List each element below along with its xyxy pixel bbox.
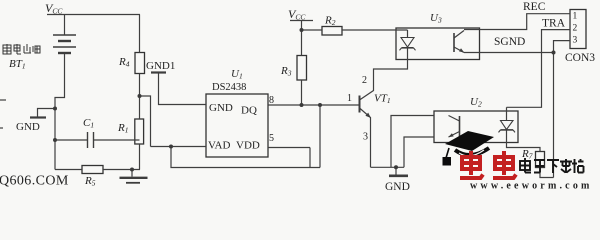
svg-text:2: 2: [362, 75, 367, 86]
svg-text:TRA: TRA: [542, 18, 566, 30]
svg-text:Q606.COM: Q606.COM: [0, 174, 69, 189]
svg-text:3: 3: [573, 36, 578, 46]
svg-text:1: 1: [347, 93, 352, 104]
svg-text:GND: GND: [209, 102, 233, 114]
svg-text:VAD: VAD: [208, 140, 230, 152]
svg-text:GND1: GND1: [146, 60, 175, 72]
svg-text:REC: REC: [523, 1, 546, 13]
svg-text:8: 8: [269, 95, 274, 106]
svg-text:DS2438: DS2438: [212, 82, 246, 93]
svg-text:3: 3: [363, 132, 368, 143]
svg-text:GND: GND: [385, 181, 410, 191]
svg-text:1: 1: [573, 12, 578, 22]
svg-text:CON3: CON3: [565, 52, 595, 64]
svg-text:www.eeworm.com: www.eeworm.com: [470, 181, 593, 192]
svg-text:SGND: SGND: [494, 36, 525, 48]
svg-text:5: 5: [269, 133, 274, 144]
svg-text:DQ: DQ: [241, 105, 257, 117]
svg-text:GND: GND: [16, 121, 40, 133]
svg-text:2: 2: [573, 24, 578, 34]
svg-text:VDD: VDD: [236, 140, 260, 152]
